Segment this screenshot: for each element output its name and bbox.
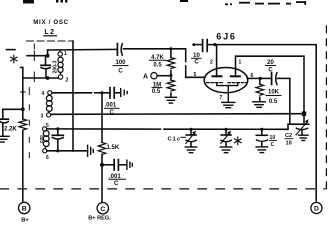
wire B+REG branch xyxy=(101,93,103,143)
svg-text:L2: L2 xyxy=(44,29,55,36)
wire to C2 xyxy=(303,114,305,125)
capacitor .001 top xyxy=(102,88,120,98)
svg-text:C: C xyxy=(100,206,105,213)
shield can L2 dashed left xyxy=(33,44,35,82)
svg-text:C 1 c: C 1 c xyxy=(168,136,181,142)
pin label 5 xyxy=(194,72,197,78)
plate lead pin 1 xyxy=(236,56,305,113)
capacitor tank C xyxy=(41,56,50,78)
wire divider to grid pin5 xyxy=(186,49,205,78)
value C2/10 xyxy=(285,133,292,147)
value 10K 0.5 xyxy=(268,90,280,106)
pin label 7 xyxy=(220,95,223,101)
node B left cap xyxy=(21,107,25,111)
node 001 mid xyxy=(100,163,104,167)
ground edge cap xyxy=(0,136,9,142)
ground sideways pin6 xyxy=(88,145,94,156)
label MIX/OSC xyxy=(33,19,68,26)
wire pin 6 xyxy=(247,77,260,79)
wire osc feedback xyxy=(51,113,304,116)
capacitor .001 mid xyxy=(102,160,127,170)
capacitor osc padding xyxy=(52,129,63,151)
node C1C xyxy=(189,128,192,131)
capacitor 10/C xyxy=(192,40,215,52)
ground trimmer2 xyxy=(220,147,231,153)
wire step up xyxy=(47,50,49,56)
ground sideways 001 mid xyxy=(127,160,132,169)
coil L2 xyxy=(58,57,63,75)
node divider top xyxy=(169,47,172,50)
value winding B rotated xyxy=(39,135,44,143)
grid dashes xyxy=(207,82,247,84)
svg-text:A: A xyxy=(143,74,148,81)
value .001/C top xyxy=(105,102,117,116)
tick on B line xyxy=(21,91,26,93)
terminal pin 3 xyxy=(41,114,44,120)
terminal D xyxy=(311,202,322,213)
value 100/C xyxy=(115,60,126,75)
svg-text:C: C xyxy=(118,69,123,75)
wire pin6 branch down xyxy=(289,78,291,124)
test point A xyxy=(151,73,169,79)
svg-text:0.5: 0.5 xyxy=(269,99,278,105)
wire B+ branch xyxy=(21,68,23,120)
ground cap 10C xyxy=(256,147,267,153)
resistor 4.7K xyxy=(167,49,175,76)
node tank bottom xyxy=(46,76,50,80)
resistor 2.2K xyxy=(19,119,27,202)
svg-text:4: 4 xyxy=(42,91,45,97)
svg-text:1: 1 xyxy=(64,51,67,57)
value 200-3 rotated xyxy=(53,60,59,73)
wire to grid cap xyxy=(48,48,117,51)
wire pin5 xyxy=(47,128,288,130)
resistor 1.5K xyxy=(98,142,106,202)
value 1M 0.5 xyxy=(152,83,161,96)
wire tank bottom xyxy=(23,77,59,79)
wire 100C to divider xyxy=(124,48,186,50)
label L2 xyxy=(44,29,55,36)
tube 6J6 envelope xyxy=(204,68,248,93)
svg-text:1: 1 xyxy=(239,60,242,66)
node trimmer2 xyxy=(224,128,227,131)
svg-text:10: 10 xyxy=(286,141,292,147)
node grid cap xyxy=(213,43,216,46)
label B+ xyxy=(21,218,29,224)
label 6J6 xyxy=(216,32,236,42)
svg-text:7: 7 xyxy=(220,95,223,101)
floating dash left xyxy=(7,49,16,51)
label A xyxy=(143,74,148,81)
svg-text:6: 6 xyxy=(46,155,49,161)
svg-text:C: C xyxy=(271,142,275,148)
value 1.5K xyxy=(107,145,120,151)
asterisk footnote xyxy=(11,55,18,63)
node feedback right xyxy=(302,112,306,116)
shield can osc dashed left xyxy=(28,88,30,158)
svg-text:5: 5 xyxy=(194,72,197,78)
svg-text:200-3: 200-3 xyxy=(53,60,59,73)
ground under 1M xyxy=(165,97,176,103)
shield dashed vertical xyxy=(325,26,327,189)
node cap bottom xyxy=(56,149,59,152)
terminal C xyxy=(97,203,108,214)
capacitor 20/C xyxy=(260,73,289,85)
coil osc winding A xyxy=(46,95,52,112)
pin label 2 xyxy=(66,78,69,84)
svg-text:.001: .001 xyxy=(105,102,117,108)
ground C2 xyxy=(299,135,309,140)
plate lead pin 2 xyxy=(216,45,218,77)
value 4.7K 0.5 xyxy=(151,55,164,69)
terminal pin 6 xyxy=(43,149,47,153)
svg-text:3: 3 xyxy=(41,114,44,120)
svg-text:B+: B+ xyxy=(21,218,29,224)
value 10/C bus xyxy=(270,135,276,148)
wire pin4 xyxy=(52,92,102,94)
ground under 10K xyxy=(253,102,265,108)
L2 underline xyxy=(44,35,57,37)
svg-text:B: B xyxy=(22,206,27,213)
svg-text:6J6: 6J6 xyxy=(216,32,236,42)
asterisk trimmer2 xyxy=(235,137,242,145)
pin label 1 xyxy=(64,51,67,57)
coil osc top terminal pin 4 xyxy=(42,91,45,97)
svg-text:2: 2 xyxy=(66,78,69,84)
plate left xyxy=(213,75,222,77)
pin label 6 xyxy=(251,73,254,79)
value 2.2K xyxy=(4,127,17,133)
ground C1C xyxy=(185,147,196,153)
value 20/C xyxy=(267,60,274,74)
node 001 top xyxy=(100,91,103,94)
pin label 2 xyxy=(210,60,213,66)
svg-text:C: C xyxy=(114,181,119,187)
resistor 1M xyxy=(167,76,175,97)
trimmer star xyxy=(221,129,232,146)
value 10/C xyxy=(193,53,200,66)
svg-text:0.5: 0.5 xyxy=(153,63,162,69)
svg-text:D: D xyxy=(314,206,319,213)
terminal pin 2 of L2 xyxy=(58,75,62,79)
svg-text:10K: 10K xyxy=(268,90,280,96)
wire bypass bus xyxy=(288,124,295,129)
node tank top xyxy=(46,54,50,58)
trimmer C2 xyxy=(295,119,309,135)
svg-text:C: C xyxy=(110,110,115,116)
wire tank top xyxy=(27,55,48,57)
node pin 6 xyxy=(259,77,262,80)
trimmer C1C xyxy=(186,129,197,146)
cathode xyxy=(217,83,238,101)
label B+ REG. xyxy=(88,216,111,222)
svg-text:B+ REG.: B+ REG. xyxy=(88,216,111,222)
svg-text:2.2K: 2.2K xyxy=(4,127,17,133)
capacitor edge xyxy=(0,109,8,136)
resistor 10K xyxy=(256,78,264,101)
wire top rail to D xyxy=(215,45,316,201)
node cap 10C xyxy=(260,128,263,131)
svg-text:2: 2 xyxy=(210,60,213,66)
coil osc winding B xyxy=(43,131,49,149)
ground sideways 001 top xyxy=(121,89,128,97)
wire pin6 coil xyxy=(47,150,88,152)
chassis dashed line xyxy=(0,188,325,190)
plate right xyxy=(231,75,240,77)
wire to edge cap xyxy=(3,108,23,110)
svg-text:C: C xyxy=(194,60,199,66)
cutoff marks top edge xyxy=(23,0,306,5)
value .001/C mid xyxy=(109,174,121,187)
terminal B xyxy=(19,202,30,213)
pin label 1 xyxy=(239,60,242,66)
svg-text:MIX / OSC: MIX / OSC xyxy=(33,19,68,26)
svg-text:C2: C2 xyxy=(285,133,292,139)
wire trunk xyxy=(72,41,74,151)
capacitor 10/C bus xyxy=(256,129,267,146)
svg-text:1.5K: 1.5K xyxy=(107,145,120,151)
node pin5 cap xyxy=(56,127,59,130)
ground cathode xyxy=(222,102,235,107)
node A junction xyxy=(169,74,172,77)
terminal pin 5 xyxy=(46,123,49,129)
shield can L2 dashed top xyxy=(27,40,74,42)
svg-text:0.5: 0.5 xyxy=(152,89,161,95)
terminal pin 1 of L2 xyxy=(58,50,62,56)
svg-text:C: C xyxy=(268,68,273,74)
capacitor 100/C xyxy=(117,44,122,56)
label C1C xyxy=(168,136,181,142)
